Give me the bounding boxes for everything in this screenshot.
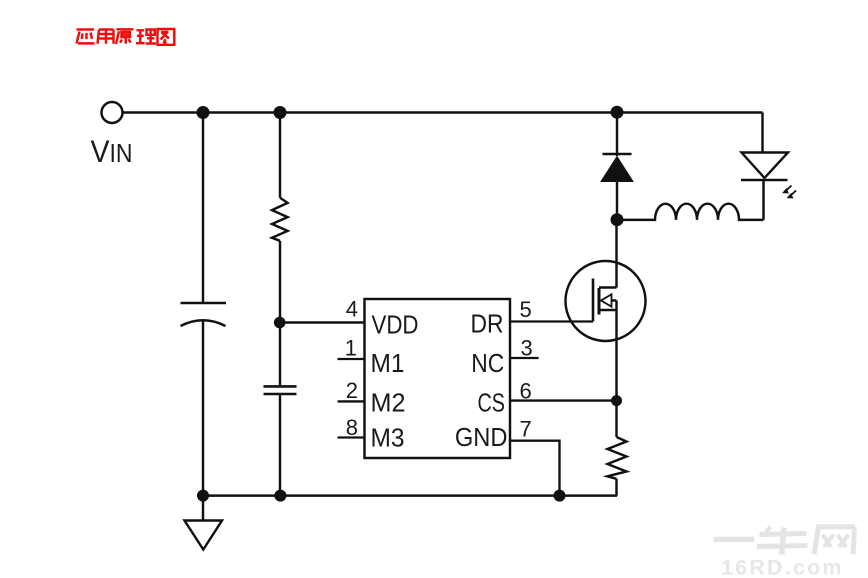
svg-text:VDD: VDD: [372, 309, 419, 339]
wire R2 bottom to bus: [615, 479, 617, 496]
Q1 source vertical down to CS node and R2: [615, 301, 617, 438]
svg-text:DR: DR: [471, 309, 504, 339]
pin 6 CS lead: [510, 399, 617, 401]
pin 3 stub: [510, 357, 539, 359]
wire branch1 lower: [202, 320, 204, 497]
node junction top2: [274, 106, 287, 119]
Q1 source connect: [599, 309, 617, 311]
svg-text:7: 7: [520, 416, 532, 441]
diode D1: [601, 113, 633, 220]
node junction GND bus: [554, 490, 566, 502]
Q1 drain vertical: [615, 220, 617, 288]
pin 2 stub: [338, 400, 365, 402]
svg-text:1: 1: [345, 335, 357, 360]
capacitor C1 polarized: [181, 303, 227, 326]
resistor R1: [272, 198, 288, 241]
watermark 一牛网: [714, 527, 856, 555]
svg-text:8: 8: [346, 415, 358, 440]
svg-text:M2: M2: [371, 388, 406, 418]
pin 5 gate lead: [510, 320, 593, 322]
transistor Q1 MOSFET circle: [566, 261, 646, 341]
svg-text:5: 5: [520, 297, 532, 322]
Q1 channel bar: [598, 288, 601, 315]
svg-text:IN: IN: [110, 138, 133, 168]
Q1 drain connect: [599, 286, 617, 288]
svg-text:GND: GND: [455, 422, 508, 452]
wire branch2 lower: [279, 394, 281, 496]
Q1 gate bar: [592, 279, 595, 322]
svg-text:3: 3: [521, 336, 533, 361]
node junction diode top: [611, 106, 624, 119]
capacitor C2: [264, 386, 297, 394]
wire top-right drop to LED: [761, 113, 763, 153]
svg-text:CS: CS: [478, 388, 506, 418]
node junction diode bottom: [611, 213, 624, 226]
svg-text:16RD.com: 16RD.com: [721, 556, 844, 578]
svg-text:4: 4: [346, 296, 358, 321]
node junction top1: [197, 106, 210, 119]
ground: [185, 496, 223, 550]
svg-text:M1: M1: [371, 348, 405, 378]
wire VDD pin4 connection: [280, 321, 365, 323]
wire vertical branch 2 upper: [279, 113, 281, 198]
char 应: [77, 30, 95, 44]
char 图: [158, 29, 175, 45]
pin 7 GND lead: [510, 441, 560, 496]
wire left vertical branch 1: [202, 113, 204, 304]
title 应用原理图: [77, 29, 175, 45]
svg-text:M3: M3: [371, 423, 405, 453]
char 原: [116, 29, 134, 44]
svg-text:2: 2: [346, 378, 358, 403]
resistor R2: [608, 437, 627, 479]
svg-text:NC: NC: [471, 348, 504, 378]
input terminal VIN: [102, 102, 123, 123]
wire top bus: [123, 111, 763, 113]
LED D2 emission arrows: [784, 186, 796, 198]
svg-text:V: V: [91, 133, 110, 169]
node junction bus2: [274, 490, 286, 502]
wire branch2 mid: [279, 241, 281, 387]
IC U1 body: [365, 299, 511, 458]
pin 8 stub: [338, 436, 365, 438]
Q1 body arrow: [601, 294, 612, 306]
char 用: [98, 30, 114, 44]
inductor L1: [617, 204, 764, 220]
Q1 body lead: [612, 299, 617, 301]
node junction CS: [611, 395, 622, 406]
label VIN: [91, 133, 133, 169]
node junction bus1: [197, 490, 209, 502]
svg-text:6: 6: [520, 378, 532, 403]
node junction VDD: [274, 317, 286, 329]
LED D2: [741, 153, 788, 220]
pin 1 stub: [338, 358, 365, 360]
char 理: [136, 30, 156, 44]
wire bottom ground bus: [203, 494, 617, 496]
